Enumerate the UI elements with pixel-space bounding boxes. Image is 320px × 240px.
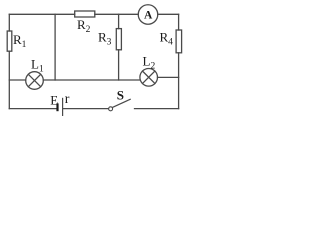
resistor R4: [176, 30, 182, 53]
svg-text:S: S: [117, 88, 124, 103]
label S: [117, 88, 124, 103]
wire bottom rail battery to switch: [63, 108, 108, 110]
label R3: [98, 30, 112, 48]
switch S blade: [109, 99, 131, 111]
resistor R1: [7, 31, 12, 51]
svg-text:E: E: [50, 92, 58, 107]
wire top rail left segment: [9, 13, 74, 15]
resistor R2: [75, 11, 95, 17]
wire middle rail right of L2: [158, 76, 179, 78]
label R2: [77, 17, 91, 35]
label L2: [143, 54, 156, 72]
label R4: [160, 30, 174, 48]
wire bottom rail right of switch: [135, 108, 179, 110]
label r: [65, 92, 70, 107]
svg-text:A: A: [144, 10, 153, 22]
wire bottom rail left of battery: [9, 108, 56, 110]
lamp L2: [140, 69, 158, 87]
wire left rail: [8, 14, 10, 108]
ammeter U1: [138, 5, 158, 25]
svg-text:r: r: [65, 92, 70, 107]
battery E short plate: [56, 103, 58, 111]
wire branch vertical x=118.6 (R3 branch): [118, 14, 120, 80]
wire branch vertical x=55: [54, 14, 56, 80]
battery E long plate: [62, 98, 64, 115]
label A (ammeter): [144, 10, 153, 22]
label L1: [31, 57, 44, 75]
label E: [50, 92, 58, 107]
resistor R3: [116, 29, 121, 50]
wire middle rail between L1 and L2: [43, 79, 140, 81]
label R1: [13, 32, 27, 50]
lamp L1: [26, 72, 44, 90]
wire middle rail left of L1: [9, 79, 25, 81]
wire right rail: [178, 14, 180, 108]
wire top rail right segment: [158, 13, 179, 15]
wire top rail middle segment: [95, 13, 138, 15]
